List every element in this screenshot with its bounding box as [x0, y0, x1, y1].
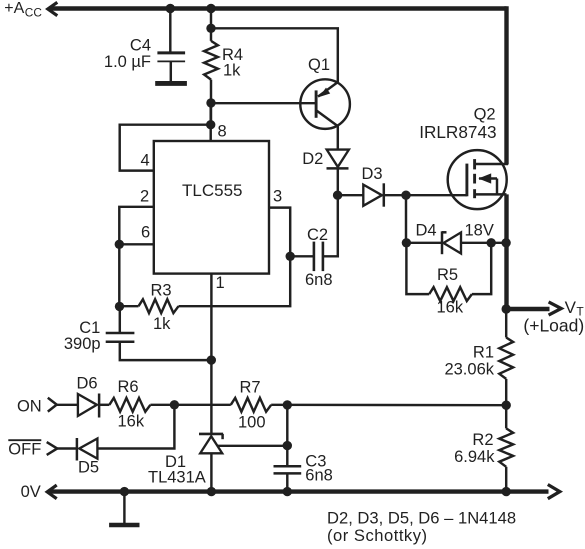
- pin 1 label: [216, 274, 225, 292]
- svg-text:Q2: Q2: [474, 106, 496, 124]
- pin 3 wire: [269, 208, 290, 257]
- wire C1 bottom to pin1 line: [120, 342, 212, 360]
- svg-text:R6: R6: [118, 378, 139, 396]
- junction TL431 on 0V: [207, 487, 216, 496]
- wire R4 bottom stub: [210, 80, 212, 125]
- svg-text:8: 8: [218, 122, 227, 140]
- junction R6/D5: [170, 400, 179, 409]
- wire VT output: [506, 307, 549, 311]
- capacitor C2: [314, 242, 323, 272]
- junction R2 on 0V: [502, 487, 511, 496]
- note diode types: [327, 508, 516, 545]
- svg-text:+A: +A: [4, 0, 24, 17]
- R5 value label: [437, 266, 464, 316]
- C4 value label: [104, 36, 151, 71]
- junction R3/C1: [115, 302, 124, 311]
- wire C2 left: [290, 255, 314, 257]
- wire Q1 base: [211, 102, 316, 104]
- R6 value label: [118, 378, 145, 430]
- resistor R2: [499, 428, 513, 466]
- wire right vertical rail (source side): [504, 194, 508, 309]
- svg-text:D5: D5: [78, 458, 99, 476]
- svg-text:IRLR8743: IRLR8743: [419, 122, 496, 142]
- junction ground: [120, 487, 129, 496]
- capacitor C1: [106, 333, 135, 342]
- resistor R3: [139, 299, 179, 313]
- resistor R7: [231, 398, 271, 412]
- pin 4 label: [141, 152, 150, 170]
- R2 value label: [454, 431, 495, 466]
- svg-text:V: V: [565, 298, 577, 317]
- wire R5 left leg: [406, 243, 429, 294]
- svg-text:R7: R7: [240, 379, 261, 397]
- wire +ACC top rail: [49, 6, 507, 10]
- R1 value label: [444, 344, 494, 379]
- svg-text:1k: 1k: [153, 315, 171, 333]
- junction divider node: [502, 401, 511, 410]
- R7 value label: [238, 379, 266, 432]
- svg-text:Q1: Q1: [308, 56, 330, 74]
- D6 label: [77, 375, 98, 393]
- wire TL431 REF: [218, 445, 288, 447]
- wire D3 to gate node: [384, 194, 467, 196]
- node ON label: [17, 398, 42, 416]
- node VT arrow: [549, 302, 562, 315]
- wire VT to R1: [505, 309, 507, 338]
- R3 value label: [151, 281, 172, 333]
- junction R4 top: [206, 4, 215, 13]
- svg-text:R3: R3: [151, 281, 172, 299]
- junction D4 left: [402, 238, 411, 247]
- transistor Q1 (PNP): [300, 79, 350, 129]
- junction pin 6: [115, 240, 124, 249]
- diode D2: [327, 150, 349, 169]
- svg-text:3: 3: [273, 188, 282, 206]
- wire R3 right leg: [179, 256, 291, 306]
- node 0V left arrow: [47, 485, 57, 499]
- junction D4/R5 right: [487, 238, 496, 247]
- node +ACC arrow: [48, 2, 58, 15]
- pin 2 wire: [119, 207, 154, 245]
- node 0V right arrow: [548, 485, 560, 499]
- node +ACC label: [4, 0, 42, 20]
- wire C3 top stub: [286, 446, 288, 467]
- pin 3 label: [273, 188, 282, 206]
- svg-text:D3: D3: [362, 165, 383, 183]
- C1 value label: [64, 319, 101, 353]
- svg-text:2: 2: [140, 188, 149, 206]
- pin 6 wire: [119, 243, 154, 245]
- node 0V label: [21, 483, 41, 501]
- zener diode D4 18V: [442, 231, 461, 254]
- ground (under C4): [155, 81, 187, 86]
- svg-text:D6: D6: [77, 375, 98, 393]
- svg-text:6.94k: 6.94k: [454, 448, 495, 466]
- diode D6: [78, 394, 99, 418]
- D1 label: [148, 453, 206, 486]
- pin 8 label: [218, 122, 227, 140]
- svg-text:R1: R1: [473, 344, 494, 362]
- wire C1 top stub: [119, 306, 121, 333]
- capacitor C3: [274, 466, 302, 473]
- wire R4 top stub: [210, 9, 212, 41]
- svg-text:ON: ON: [17, 398, 42, 416]
- svg-text:6n8: 6n8: [305, 271, 333, 289]
- svg-text:OFF: OFF: [8, 440, 41, 458]
- svg-text:R2: R2: [472, 431, 493, 449]
- wire Q1 emitter to +ACC: [211, 28, 338, 82]
- svg-text:(+Load): (+Load): [523, 315, 584, 335]
- wire right vertical rail (drain side): [504, 6, 508, 164]
- wire R6 to junction: [150, 404, 230, 406]
- wire C2 right up to D2 node: [323, 195, 338, 256]
- svg-text:D4: D4: [416, 221, 437, 239]
- wire pin6 down to R3: [118, 244, 120, 306]
- wire R7 node down to REF: [286, 405, 288, 446]
- svg-text:(or Schottky): (or Schottky): [327, 526, 428, 545]
- wire 0V rail: [49, 489, 549, 493]
- svg-text:23.06k: 23.06k: [444, 361, 494, 379]
- wire gate node down to D4: [405, 195, 407, 243]
- svg-text:16k: 16k: [437, 299, 464, 317]
- resistor R1: [499, 338, 513, 379]
- wire C4 top stub: [169, 9, 171, 52]
- wire R1 to node: [505, 379, 507, 429]
- svg-text:16k: 16k: [118, 412, 145, 430]
- D2 label: [302, 150, 323, 168]
- wire R5 right leg: [472, 243, 491, 294]
- svg-text:1.0 µF: 1.0 µF: [104, 53, 151, 71]
- wire R2 to 0V: [505, 467, 507, 492]
- svg-text:D2: D2: [302, 150, 323, 168]
- svg-text:390p: 390p: [64, 335, 101, 353]
- svg-text:100: 100: [238, 413, 266, 431]
- svg-text:4: 4: [141, 152, 150, 170]
- svg-text:6: 6: [141, 224, 150, 242]
- svg-text:6n8: 6n8: [305, 467, 333, 485]
- ground symbol: [109, 492, 139, 525]
- R4 value label: [222, 46, 243, 80]
- op-amp U1 TLC555 box: [154, 141, 269, 274]
- pin 2 label: [140, 188, 149, 206]
- shunt reference D1 TL431A: [199, 434, 223, 453]
- resistor R4: [204, 41, 218, 80]
- C2 value label: [305, 226, 333, 289]
- wire C3 bottom stub: [286, 473, 288, 491]
- pin 1 wire: [210, 274, 212, 434]
- junction pin 8: [206, 120, 215, 129]
- svg-text:D2, D3, D5, D6 – 1N4148: D2, D3, D5, D6 – 1N4148: [327, 508, 516, 527]
- junction REF/C3: [283, 441, 292, 450]
- C3 value label: [305, 453, 333, 485]
- resistor R6: [109, 398, 150, 412]
- wire D5 to R6 junction: [97, 405, 174, 449]
- wire TL431 anode to 0V: [210, 453, 212, 491]
- junction D4 on rail: [501, 238, 510, 247]
- diode D3: [363, 183, 384, 206]
- D4 label: [416, 221, 494, 239]
- svg-text:C4: C4: [130, 36, 151, 54]
- node OFF overline: [8, 439, 41, 441]
- wire node to D3: [338, 194, 364, 196]
- pin 8 wire: [209, 103, 211, 141]
- svg-text:18V: 18V: [465, 221, 494, 239]
- node OFF label: [8, 440, 41, 458]
- junction D2/D3/C2: [333, 191, 342, 200]
- wire Q1 collector to D2: [337, 126, 339, 150]
- Q1 label: [308, 56, 330, 74]
- svg-text:0V: 0V: [21, 483, 41, 501]
- junction D3/gate/D4: [401, 191, 410, 200]
- svg-text:1: 1: [216, 274, 225, 292]
- wire D4 left: [406, 242, 442, 244]
- junction C4 top: [166, 4, 175, 13]
- svg-text:TL431A: TL431A: [148, 468, 206, 486]
- svg-text:R5: R5: [437, 266, 458, 284]
- Q2 label: [419, 106, 496, 143]
- wire D6 to R6: [99, 404, 109, 406]
- capacitor C4: [157, 51, 185, 54]
- wire D4 right: [461, 242, 506, 244]
- junction C1/pin1: [207, 355, 216, 364]
- VT label: [523, 298, 584, 335]
- D5 label: [78, 458, 99, 476]
- wire ON to D6: [57, 404, 78, 406]
- node OFF input chevron: [47, 442, 58, 455]
- wire D2 to node: [337, 168, 339, 195]
- svg-text:1k: 1k: [223, 62, 241, 80]
- svg-text:CC: CC: [25, 6, 43, 20]
- wire R3 left stub: [120, 305, 139, 307]
- junction pin3/C2/R3: [286, 252, 295, 261]
- D3 label: [362, 165, 383, 183]
- svg-text:C2: C2: [307, 226, 328, 244]
- diode D5: [77, 438, 98, 461]
- resistor R5: [429, 287, 472, 301]
- junction emitter branch: [206, 24, 215, 33]
- svg-text:TLC555: TLC555: [182, 181, 242, 200]
- wire OFF to D5: [57, 447, 77, 449]
- transistor Q2 (N-MOSFET IRLR8743): [448, 150, 508, 209]
- junction VT: [502, 304, 511, 313]
- wire R7 to divider node: [271, 404, 506, 407]
- pin 4 wire loop to pin 8: [120, 125, 211, 171]
- junction R7 right: [283, 400, 292, 409]
- junction R4 bottom / Q1 base: [206, 98, 215, 107]
- junction C3 on 0V: [283, 487, 292, 496]
- node ON input chevron: [48, 398, 57, 412]
- pin 6 label: [141, 224, 150, 242]
